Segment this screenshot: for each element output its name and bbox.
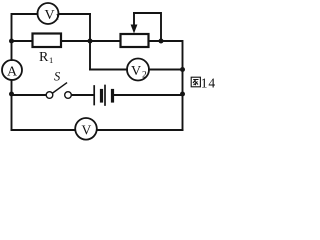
wire: R1 to rheostat <box>61 40 121 42</box>
node: junction left main <box>9 39 14 44</box>
node: V2 right junction <box>180 67 185 72</box>
svg-text:A: A <box>7 65 18 80</box>
svg-text:V: V <box>45 8 55 23</box>
svg-text:S: S <box>54 70 61 84</box>
wire: battery to right side <box>114 94 183 96</box>
switch S <box>46 70 71 99</box>
svg-text:R: R <box>39 50 49 65</box>
node: battery row left junction <box>9 92 14 97</box>
wire: bottom right segment <box>97 129 183 131</box>
node: battery right junction <box>180 92 185 97</box>
voltmeter V1 <box>38 3 60 24</box>
svg-text:2: 2 <box>142 71 147 81</box>
svg-text:V: V <box>131 64 141 79</box>
rheostat wiper arrow <box>131 13 138 34</box>
wire: left vertical (top corner to ammeter) <box>12 14 38 60</box>
svg-text:14: 14 <box>201 76 216 91</box>
wire: left vertical below ammeter to bottom-left corner <box>11 80 13 130</box>
wire: bottom left segment <box>12 129 76 131</box>
wire: V1 to right corner <box>59 13 91 15</box>
wire: V1 loop right vertical down to V2 branch <box>89 14 91 70</box>
node: junction wiper/right <box>159 39 164 44</box>
wire: V2 branch left <box>90 69 127 71</box>
svg-text:1: 1 <box>55 13 59 22</box>
battery (two cells) <box>94 86 112 106</box>
ammeter A <box>2 60 22 80</box>
wire: wiper loop top to right terminal <box>134 13 161 41</box>
node: junction V1/V2 tap <box>88 39 93 44</box>
caption 图14 <box>191 76 216 91</box>
voltmeter V (bottom) <box>75 118 97 140</box>
svg-text:1: 1 <box>49 55 53 65</box>
wire: battery row from left wire to switch <box>12 94 47 96</box>
wire: V2 branch right <box>149 69 183 71</box>
voltmeter V2 <box>127 59 149 81</box>
wire: main horizontal (node A to R1) <box>12 40 33 42</box>
rheostat R2 body <box>121 34 149 47</box>
resistor R1 <box>33 34 62 66</box>
wire: switch to battery <box>72 94 93 96</box>
wire: rheostat to top-right corner, down right side <box>149 41 183 130</box>
svg-text:V: V <box>82 122 92 137</box>
